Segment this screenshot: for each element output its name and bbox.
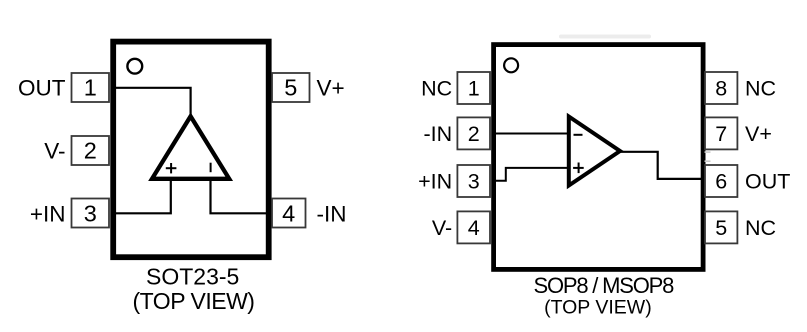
op-amp + input symbol (SOP8) [573, 163, 584, 174]
svg-text:4: 4 [282, 200, 295, 226]
pin box 3 (SOP8) [457, 165, 490, 197]
svg-text:(TOP VIEW): (TOP VIEW) [544, 297, 652, 319]
svg-text:SOT23-5: SOT23-5 [146, 264, 239, 290]
pin box 6 (SOP8) [705, 165, 737, 197]
pin box 2 (SOP8) [457, 117, 490, 149]
svg-text:5: 5 [284, 75, 297, 101]
pin box 2 (SOT23-5) [72, 136, 110, 165]
faint erased watermark above SOP8 package [559, 35, 651, 39]
svg-text:+IN: +IN [418, 170, 452, 194]
wire pin3 +IN to op-amp non-inverting input (SOP8) [495, 168, 567, 181]
svg-text:NC: NC [745, 216, 776, 240]
wire pin4 -IN to op-amp - input [211, 179, 271, 213]
svg-text:V+: V+ [317, 76, 345, 101]
svg-text:SOP8 / MSOP8: SOP8 / MSOP8 [533, 273, 674, 298]
pin box 1 (SOP8) [457, 72, 490, 104]
svg-text:1: 1 [84, 75, 97, 101]
artifact dashes right of SOP8 border [705, 151, 711, 153]
svg-text:NC: NC [421, 77, 452, 101]
svg-text:NC: NC [745, 77, 776, 101]
svg-text:7: 7 [715, 122, 727, 146]
svg-text:3: 3 [468, 170, 480, 194]
wire op-amp output to pin6 OUT (SOP8) [620, 152, 702, 179]
pin box 5 (SOT23-5) [272, 73, 310, 102]
pin-1 marker dot (SOP8) [504, 58, 518, 72]
svg-text:5: 5 [715, 216, 727, 240]
pin box 5 (SOP8) [705, 211, 737, 243]
pin box 7 (SOP8) [705, 117, 737, 149]
svg-text:2: 2 [84, 138, 97, 164]
op-amp - input symbol (SOP8) [574, 134, 583, 136]
pin box 4 (SOP8) [457, 211, 490, 243]
package body SOT23-5 [113, 42, 269, 258]
op-amp + input symbol (SOT23-5) [166, 163, 177, 173]
pin box 4 (SOT23-5) [272, 199, 306, 228]
op-amp U2 (SOP8, triangle pointing right) [569, 117, 620, 186]
svg-text:-IN: -IN [317, 201, 347, 226]
wire pin3 +IN to op-amp + input [112, 179, 171, 213]
op-amp - input symbol (SOT23-5, vertical tick) [210, 163, 212, 173]
svg-text:(TOP VIEW): (TOP VIEW) [133, 288, 255, 314]
pin box 1 (SOT23-5) [72, 73, 110, 102]
op-amp U1 (SOT23-5, triangle pointing up) [152, 116, 229, 179]
svg-text:4: 4 [468, 216, 480, 240]
svg-text:V-: V- [44, 139, 65, 164]
wire pin2 -IN to op-amp inverting input (SOP8) [495, 133, 567, 135]
svg-text:OUT: OUT [18, 76, 66, 101]
svg-text:OUT: OUT [745, 170, 790, 194]
pin box 3 (SOT23-5) [72, 199, 110, 228]
svg-text:-IN: -IN [424, 122, 453, 146]
svg-text:2: 2 [468, 122, 480, 146]
pin box 8 (SOP8) [705, 72, 737, 104]
svg-text:1: 1 [468, 77, 480, 101]
svg-text:3: 3 [84, 200, 97, 226]
svg-text:V-: V- [432, 216, 452, 240]
svg-text:8: 8 [715, 77, 727, 101]
package body SOP8 / MSOP8 [494, 45, 703, 270]
svg-text:+IN: +IN [30, 201, 66, 226]
pin-1 marker dot (SOT23-5) [127, 59, 142, 74]
svg-text:6: 6 [715, 170, 727, 194]
svg-text:V+: V+ [745, 122, 772, 146]
wire pin1 OUT to op-amp output apex [112, 88, 191, 116]
